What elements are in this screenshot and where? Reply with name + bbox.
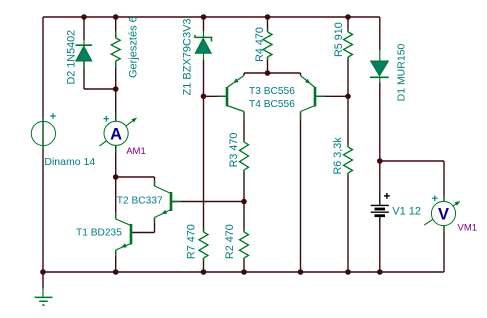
svg-text:V: V xyxy=(438,206,449,224)
wire D2 branch xyxy=(84,17,116,89)
wire excitation column xyxy=(115,17,117,122)
node top Z1 xyxy=(201,14,207,20)
svg-text:D1 MUR150: D1 MUR150 xyxy=(395,43,407,101)
svg-text:R3 470: R3 470 xyxy=(228,133,240,168)
wire T4 collector xyxy=(300,112,302,273)
svg-text:T3 BC556: T3 BC556 xyxy=(249,86,295,97)
transistor Q T1 xyxy=(116,212,131,256)
node divider xyxy=(241,199,247,205)
node R4-emitters xyxy=(265,70,271,76)
node bottom R6 xyxy=(345,269,351,275)
label Z1 BZX79C3V3 xyxy=(182,18,194,95)
wire T4 base to feedback node xyxy=(315,95,348,97)
label T2 BC337 xyxy=(117,196,163,207)
diode D1 xyxy=(370,50,389,83)
svg-text:T1 BD235: T1 BD235 xyxy=(76,228,122,239)
svg-text:R6 3,3k: R6 3,3k xyxy=(332,137,344,175)
wire R6 column xyxy=(347,96,349,272)
node top excitation xyxy=(113,14,119,20)
node bottom T4 xyxy=(298,269,304,275)
wire R4 branch xyxy=(267,17,269,73)
label T4 BC556 xyxy=(249,99,295,110)
resistor R4 xyxy=(263,29,272,60)
node top D2 xyxy=(81,14,87,20)
svg-text:T2 BC337: T2 BC337 xyxy=(117,196,163,207)
wire collector node to T1 xyxy=(115,177,117,219)
wire R3 column xyxy=(243,112,245,202)
wire node Z to R7 xyxy=(203,96,205,272)
wire bottom rail xyxy=(43,271,444,273)
node output xyxy=(377,158,383,164)
svg-text:R4 470: R4 470 xyxy=(254,27,266,62)
node top R4 xyxy=(265,14,271,20)
label T3 BC556 xyxy=(249,86,295,97)
wire top rail xyxy=(43,16,380,18)
svg-text:AM1: AM1 xyxy=(126,146,146,157)
wire ammeter to node xyxy=(115,146,117,178)
svg-text:D2 1N5402: D2 1N5402 xyxy=(65,30,77,85)
svg-text:Z1 BZX79C3V3: Z1 BZX79C3V3 xyxy=(182,18,194,95)
label R5 910 xyxy=(333,22,345,57)
node zener-T3base xyxy=(201,94,207,100)
wire left column xyxy=(42,17,44,272)
node collector xyxy=(113,174,119,180)
transistor Q T3 xyxy=(217,76,244,121)
transistor Q T2 xyxy=(155,180,182,223)
svg-text:Gerjesztés 6: Gerjesztés 6 xyxy=(128,16,140,78)
wire Z1 column xyxy=(203,17,205,96)
ground xyxy=(35,272,53,305)
svg-text:A: A xyxy=(110,125,122,143)
svg-text:R7 470: R7 470 xyxy=(186,224,198,259)
label R6 3,3k xyxy=(332,137,344,175)
node battery bottom xyxy=(377,269,383,275)
label VM1 xyxy=(458,223,478,234)
label T1 BD235 xyxy=(76,228,122,239)
node bottom R7 xyxy=(201,269,207,275)
svg-text:V1 12: V1 12 xyxy=(392,206,421,218)
wire output node to voltmeter xyxy=(380,161,444,202)
svg-text:VM1: VM1 xyxy=(458,223,478,234)
wire R5 column xyxy=(347,17,349,96)
resistor Gerjesztes xyxy=(111,31,120,68)
battery V1 xyxy=(371,193,390,228)
wire R2 column xyxy=(243,202,245,273)
resistor R6 xyxy=(344,144,353,176)
wire voltmeter to bottom rail xyxy=(443,226,445,273)
label Gerjesztes 6 xyxy=(128,16,140,78)
label V1 12 xyxy=(392,206,421,218)
wire T2 emitter to T1 base xyxy=(132,218,155,233)
wire emitter rail xyxy=(244,73,301,76)
label Dinamo 14 xyxy=(44,156,95,168)
label D1 MUR150 xyxy=(395,43,407,101)
label R2 470 xyxy=(224,224,236,259)
label R4 470 xyxy=(254,27,266,62)
wire collector node to T2 xyxy=(116,177,155,186)
ammeter AM1 xyxy=(100,112,137,152)
node top R5 xyxy=(345,14,351,20)
svg-text:R2 470: R2 470 xyxy=(224,224,236,259)
svg-text:R5 910: R5 910 xyxy=(333,22,345,57)
resistor R3 xyxy=(240,139,249,173)
svg-text:Dinamo 14: Dinamo 14 xyxy=(44,156,95,168)
node bottom R2 xyxy=(241,269,247,275)
resistor R5 xyxy=(344,29,353,60)
wire Z1 node to T3 base xyxy=(204,95,228,97)
wire D1 column xyxy=(379,17,381,161)
resistor R2 xyxy=(240,229,249,261)
generator Dinamo xyxy=(31,113,55,149)
svg-text:T4 BC556: T4 BC556 xyxy=(249,99,295,110)
node feedback xyxy=(345,94,351,100)
zener Z1 xyxy=(195,31,212,60)
label AM1 xyxy=(126,146,146,157)
label R3 470 xyxy=(228,133,240,168)
label R7 470 xyxy=(186,224,198,259)
wire T1 emitter xyxy=(115,250,117,272)
voltmeter VM1 xyxy=(424,195,460,231)
diode D2 xyxy=(76,40,93,68)
resistor R7 xyxy=(199,229,208,261)
wire battery branch xyxy=(379,161,381,272)
node D2-excitation xyxy=(113,86,119,92)
label D2 1N5402 xyxy=(65,30,77,85)
transistor Q T4 xyxy=(301,76,326,121)
node bottom T1 xyxy=(113,269,119,275)
wire T2 base to divider node xyxy=(172,201,244,203)
node bottom left xyxy=(40,269,46,275)
